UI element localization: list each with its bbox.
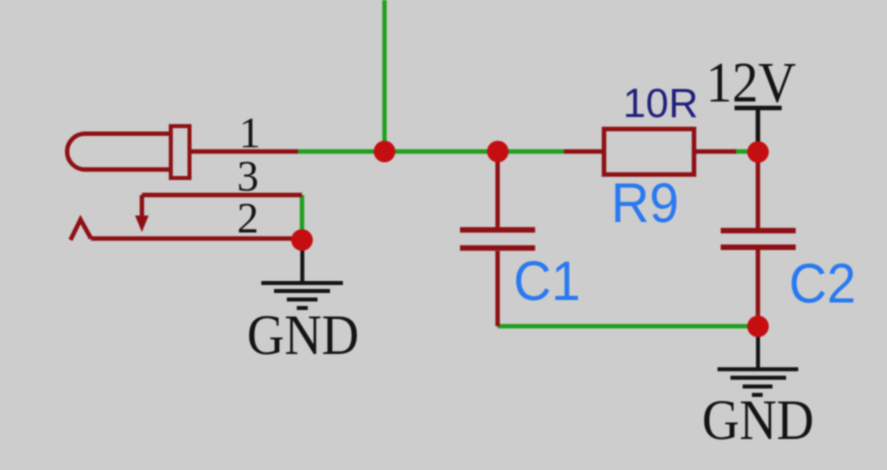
svg-text:3: 3 bbox=[237, 153, 259, 201]
svg-text:1: 1 bbox=[239, 109, 261, 157]
svg-text:C1: C1 bbox=[514, 249, 581, 312]
svg-text:10R: 10R bbox=[623, 80, 698, 126]
svg-text:R9: R9 bbox=[611, 171, 679, 234]
svg-text:GND: GND bbox=[702, 389, 814, 452]
svg-text:GND: GND bbox=[247, 304, 359, 367]
svg-text:C2: C2 bbox=[789, 252, 856, 315]
svg-text:2: 2 bbox=[237, 195, 259, 243]
svg-text:12V: 12V bbox=[706, 52, 796, 115]
